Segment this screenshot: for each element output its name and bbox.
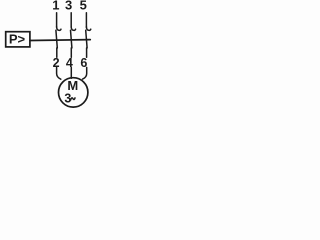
svg-text:4: 4 xyxy=(66,56,73,70)
svg-text:1: 1 xyxy=(52,0,59,13)
svg-text:3: 3 xyxy=(65,0,72,13)
svg-text:5: 5 xyxy=(80,0,87,13)
svg-text:3: 3 xyxy=(64,91,71,105)
svg-text:2: 2 xyxy=(53,56,60,70)
svg-text:P>: P> xyxy=(9,31,26,46)
svg-text:6: 6 xyxy=(80,56,87,70)
